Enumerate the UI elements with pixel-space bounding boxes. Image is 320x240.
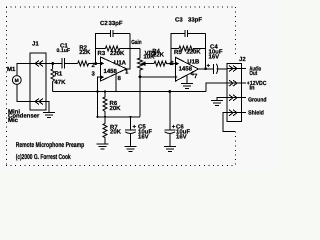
svg-text:J1: J1 [32, 41, 39, 48]
svg-text:16V: 16V [138, 134, 149, 141]
svg-text:0.1uF: 0.1uF [57, 48, 71, 54]
svg-text:J2: J2 [239, 56, 246, 63]
svg-text:220K: 220K [186, 49, 201, 56]
svg-text:M1: M1 [7, 66, 16, 73]
svg-text:+: + [133, 125, 137, 131]
svg-text:Remote Microphone Preamp: Remote Microphone Preamp [16, 141, 85, 149]
svg-text:C3: C3 [175, 17, 183, 24]
svg-text:U1A: U1A [114, 60, 127, 67]
svg-text:33pF: 33pF [109, 20, 123, 27]
svg-text:22K: 22K [153, 52, 165, 59]
svg-text:U1B: U1B [187, 58, 200, 65]
svg-text:Mic: Mic [8, 117, 19, 124]
svg-text:Gain: Gain [131, 39, 142, 46]
svg-text:+: + [174, 75, 178, 81]
svg-text:16V: 16V [209, 54, 220, 61]
svg-text:Out: Out [249, 70, 257, 77]
svg-text:M: M [15, 78, 19, 84]
svg-text:R3: R3 [98, 50, 106, 57]
svg-text:220K: 220K [110, 50, 125, 57]
svg-text:(c)2000 G. Forrest Cook: (c)2000 G. Forrest Cook [16, 153, 71, 161]
svg-text:1458: 1458 [104, 68, 118, 75]
svg-text:47K: 47K [54, 79, 66, 86]
svg-text:+: + [207, 64, 211, 70]
svg-text:33pF: 33pF [188, 17, 202, 24]
svg-text:C2: C2 [100, 20, 108, 27]
svg-text:22K: 22K [79, 49, 91, 56]
svg-text:20K: 20K [110, 129, 122, 136]
svg-text:R1: R1 [55, 71, 63, 78]
svg-text:20K: 20K [110, 105, 122, 112]
svg-text:Shield: Shield [248, 110, 264, 117]
svg-text:R5: R5 [174, 49, 182, 56]
svg-text:16V: 16V [176, 134, 187, 141]
svg-text:In: In [249, 85, 255, 92]
svg-text:Ground: Ground [248, 97, 267, 104]
